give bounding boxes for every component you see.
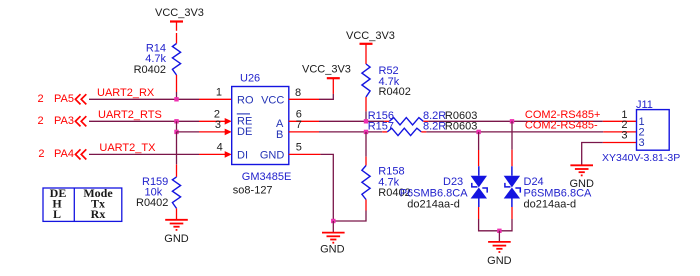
resistor R158 zigzag (362, 166, 370, 200)
resistor R156 lead red right (423, 120, 428, 122)
resistor R52 zigzag (362, 64, 370, 97)
wire junction to GND#2 (332, 221, 334, 233)
pin 3 wire (DE) (199, 131, 226, 133)
svg-text:so8-127: so8-127 (233, 185, 273, 197)
svg-text:5: 5 (296, 141, 302, 153)
diode D23 pin red top (478, 150, 480, 166)
diode D23 pin red bottom (478, 207, 480, 219)
IC U26 body (232, 87, 289, 165)
svg-text:PA3: PA3 (54, 115, 74, 127)
diode D24 pin red top (511, 150, 513, 167)
svg-text:1: 1 (216, 86, 222, 98)
junction RTS branch (174, 119, 178, 123)
pin 5 wire (GND) (289, 153, 321, 155)
svg-text:do214aa-d: do214aa-d (524, 199, 577, 211)
diode D23 TVS symbol (471, 166, 488, 207)
svg-text:4: 4 (217, 141, 223, 153)
junction R52/net A (364, 119, 368, 123)
pin 4 wire (DI) (199, 153, 226, 155)
resistor R159 zigzag (172, 177, 180, 209)
wire net A right of R156 (428, 120, 602, 122)
svg-text:D23: D23 (443, 176, 463, 188)
resistor R52 lead red bottom (365, 97, 367, 111)
junction RX/R14 (174, 97, 178, 101)
resistor R158 lead red bottom (365, 200, 367, 211)
svg-text:7: 7 (296, 119, 302, 131)
wire net B to R158 (365, 132, 367, 157)
wire RTS to DE branch vertical (176, 121, 178, 132)
wire net B down to D23 (478, 132, 480, 150)
diode D24 pin red bottom (511, 207, 513, 219)
wire DE branch horizontal (177, 131, 200, 133)
resistor R157 lead red left (382, 131, 387, 133)
svg-text:D24: D24 (524, 176, 544, 188)
wire UART2_RX (89, 98, 199, 100)
pin 7 wire (B) (289, 131, 319, 133)
pin 2 wire (RE) (199, 120, 226, 122)
pin 2 arrowhead (225, 118, 232, 125)
svg-text:L: L (53, 207, 61, 221)
ground GND #3 under diodes (488, 242, 511, 252)
resistor R14 zigzag (172, 44, 180, 76)
pin 8 wire (VCC) (289, 98, 319, 100)
resistor R156 zigzag (389, 118, 423, 125)
svg-text:COM2-RS485-: COM2-RS485- (525, 120, 598, 132)
svg-text:P6SMB6.8CA: P6SMB6.8CA (400, 188, 469, 200)
svg-text:GM3485E: GM3485E (242, 171, 292, 183)
connector J11 pin 2 wire (603, 131, 636, 133)
svg-text:VCC_3V3: VCC_3V3 (155, 7, 204, 19)
svg-text:2: 2 (38, 148, 44, 160)
junction R158/net B (364, 130, 368, 134)
resistor R159 lead red top (176, 165, 178, 177)
svg-text:8.2R: 8.2R (423, 120, 446, 132)
junction DE branch (174, 130, 178, 134)
svg-text:RO: RO (237, 94, 254, 106)
svg-text:R0402: R0402 (136, 197, 168, 209)
diode D24 TVS symbol (504, 166, 521, 207)
wire J11 pin3 to GND (582, 143, 603, 166)
svg-text:UART2_RTS: UART2_RTS (98, 109, 162, 121)
wire junction to GND#3 (498, 231, 500, 242)
power VCC_3V3 #1 bar symbol (170, 20, 183, 22)
svg-text:2: 2 (38, 93, 44, 105)
junction diode GND (497, 229, 501, 233)
svg-text:U26: U26 (240, 73, 260, 85)
svg-text:VCC_3V3: VCC_3V3 (302, 64, 351, 76)
svg-text:2: 2 (38, 115, 44, 127)
svg-text:3: 3 (215, 119, 221, 131)
svg-text:Rx: Rx (91, 207, 106, 221)
svg-text:GND: GND (164, 233, 189, 245)
svg-text:3: 3 (621, 130, 627, 142)
svg-text:GND: GND (487, 255, 512, 267)
junction pin5/R158/GND (331, 219, 335, 223)
pin 4 arrowhead (225, 151, 232, 158)
port chevron PA5 (75, 94, 80, 104)
connector J11 pin 3 wire (603, 142, 637, 144)
wire net B right of R157 (426, 131, 603, 133)
resistor R157 zigzag (387, 128, 421, 135)
svg-text:XY340V-3.81-3P: XY340V-3.81-3P (602, 152, 680, 164)
svg-text:B: B (276, 129, 283, 141)
wire net B left (319, 131, 382, 133)
wire pin5 to GND (320, 154, 333, 221)
svg-text:R0402: R0402 (379, 86, 411, 98)
wire D23 bottom corner (479, 219, 512, 231)
svg-text:VCC_3V3: VCC_3V3 (346, 30, 395, 42)
svg-text:DE: DE (237, 126, 252, 138)
wire R14 to RX net (176, 92, 178, 99)
wire RTS branch down to R159 (176, 132, 178, 164)
wire VCC#2 stem red (332, 78, 334, 94)
wire R52 to net A (365, 111, 367, 121)
svg-text:R0603: R0603 (445, 120, 477, 132)
wire VCC#3 stem (365, 44, 367, 64)
svg-text:GND: GND (569, 178, 594, 190)
wire net A left (319, 120, 384, 122)
resistor R159 lead red bottom (176, 208, 178, 219)
power VCC_3V3 #3 bar symbol (360, 43, 373, 45)
svg-text:8: 8 (295, 87, 301, 99)
resistor R157 lead red right (421, 131, 426, 133)
wire GND junction to R158 bottom (333, 211, 366, 222)
svg-text:3: 3 (639, 137, 645, 149)
svg-text:GND: GND (260, 149, 285, 161)
truth table DE mode box (43, 188, 122, 221)
junction D24/net A (510, 119, 514, 123)
wire VCC#1 stem to R14 (176, 22, 178, 44)
ground GND #2 under U26 (322, 233, 345, 243)
pin 3 arrowhead (225, 129, 232, 136)
pin 1 wire (RO) (199, 98, 232, 100)
ground GND #4 at J11 (570, 165, 593, 175)
pin 6 wire (A) (289, 120, 319, 122)
svg-text:R0402: R0402 (134, 64, 166, 76)
connector J11 body (637, 110, 670, 151)
resistor R14 lead red (176, 75, 178, 92)
wire UART2_RTS (89, 120, 199, 122)
svg-text:VCC: VCC (261, 94, 284, 106)
svg-text:do214aa-d: do214aa-d (407, 199, 460, 211)
resistor R158 lead red top (365, 157, 367, 166)
wire net A down to D24 (511, 121, 513, 150)
wire VCC#2 to pin8 (319, 94, 333, 99)
port chevron PA3 (75, 116, 80, 126)
svg-text:UART2_TX: UART2_TX (99, 142, 156, 154)
junction D23/net B (476, 130, 480, 134)
svg-text:DI: DI (237, 149, 248, 161)
svg-text:R157: R157 (368, 120, 394, 132)
ground GND #1 under R159 (165, 220, 188, 230)
svg-text:PA5: PA5 (54, 93, 74, 105)
wire UART2_TX (89, 153, 199, 155)
power VCC_3V3 #2 bar symbol (327, 77, 340, 79)
svg-text:PA4: PA4 (54, 148, 74, 160)
resistor R156 lead red left (384, 120, 389, 122)
connector J11 pin 1 wire (603, 120, 637, 122)
svg-text:GND: GND (320, 243, 345, 255)
port chevron PA4 (75, 149, 80, 159)
svg-text:UART2_RX: UART2_RX (97, 87, 155, 99)
